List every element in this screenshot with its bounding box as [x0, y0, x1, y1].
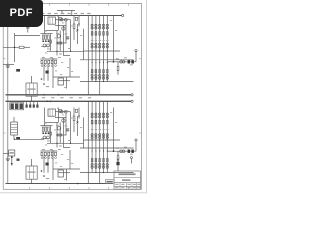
CH2 wire h extra3 [41, 138, 50, 140]
CH2 wire v low4 [67, 150, 71, 181]
resistor R2 CH1 [3, 46, 30, 48]
CH2 wire v mid1 [56, 123, 58, 148]
CH1 wire h extra4 [63, 55, 70, 57]
CH2 wire h3 [47, 142, 84, 144]
CH2 wire h extra4 [63, 147, 70, 149]
CH2 wire v mid3 [62, 118, 64, 148]
part near arrow CH2 [17, 159, 20, 161]
CH2 labels mid [42, 123, 133, 155]
CH1 bank transistors row B [91, 43, 108, 48]
CH2 wire v low1 [43, 156, 45, 173]
CH1 bank bank cross3 [80, 81, 134, 83]
CH2 resistor blobs [42, 132, 49, 134]
CH2 transistor Q6 [43, 136, 50, 139]
CH2 IC U1 box [48, 109, 55, 116]
CH2 wire right bus [113, 108, 115, 152]
wire +V rail CH2 [6, 101, 131, 103]
wire left h CH1 [15, 35, 41, 37]
CH2 wire h5 [58, 172, 70, 174]
CH2 wire top drops [45, 108, 59, 126]
CH2 capacitor C5 [128, 150, 131, 153]
CH2 small part P3 [50, 132, 52, 135]
page edge right [146, 0, 148, 193]
CH1 diode D1 [76, 24, 78, 44]
CH2 wire h2 [56, 134, 67, 136]
CH1 node out [113, 61, 115, 63]
CH2 node out [113, 150, 115, 152]
terminal near title [131, 157, 133, 164]
CH2 bank bank outer wire [84, 118, 89, 149]
wire PSU drops [27, 101, 38, 104]
CH1 wire h extra2 [45, 30, 59, 32]
CH1 bank emitter resistors B [91, 70, 108, 73]
wire relay drop CH1 [31, 76, 33, 101]
CH2 wire v right1 [70, 112, 72, 144]
CH2 small part P2 [75, 109, 77, 112]
CH1 wire h4 [53, 76, 80, 78]
CH1 wire h extra3 [41, 46, 50, 48]
CH1 transistor Q5 [62, 27, 65, 30]
CH1 labels mid [42, 31, 133, 66]
CH1 bank bank cross2 [80, 59, 134, 61]
box B2 CH2 [9, 150, 15, 156]
CH1 wire out line [107, 61, 136, 63]
labels between rails [42, 97, 91, 98]
CH2 bead F2 [65, 110, 68, 113]
CH1 wire h1 [41, 33, 53, 35]
CH1 wire v mid1 [56, 31, 58, 56]
CH2 resistor R6 [73, 108, 75, 133]
CH2 capacitor C6 [131, 150, 134, 153]
CH2 bank bank junctions [92, 139, 108, 173]
CH1 resistor R6 [73, 16, 75, 41]
CH1 resistor R5 [58, 42, 62, 44]
CH1 wire v extra3 [50, 34, 52, 52]
CH2 bank bank cross3 [80, 172, 134, 174]
relay box CH1 [26, 83, 37, 96]
CH2 wire v low2 [47, 156, 49, 173]
wire above rail CH1 [57, 10, 75, 15]
CH1 wire v mid3 [62, 26, 64, 56]
CH1 small part P2 [75, 17, 77, 20]
CH2 diode D1 [76, 116, 78, 136]
CH1 wire v low2 [47, 64, 49, 81]
CH1 bank bank junctions [92, 50, 108, 82]
CH2 wire v extra2 [78, 108, 79, 119]
CH1 wire v right1 [70, 20, 72, 52]
CH2 capacitor C4 [46, 163, 49, 166]
wire -V rail CH2 [6, 183, 113, 185]
node CH1 in [14, 47, 16, 49]
CH2 wire h extra2 [45, 122, 59, 124]
CH1 bead F1 [61, 18, 64, 21]
CH1 wire h2 [56, 42, 67, 44]
CH1 wire top drops [45, 16, 59, 34]
CH1 wire v low1 [43, 64, 45, 81]
wire title feed [116, 159, 119, 172]
CH1 bank transistors row D [91, 74, 108, 79]
CH1 small part P1 [59, 17, 61, 20]
terminal -V CH1 [131, 94, 133, 96]
CH1 resistor blobs [42, 40, 49, 42]
arrow symbol CH2 [11, 156, 13, 166]
CH2 bank emitter resistors B [91, 159, 108, 162]
CH2 bank transistors row D [91, 163, 108, 168]
CH1 wire out v [135, 50, 137, 62]
CH2 resistor R5 [58, 134, 62, 136]
CH1 bank transistors row A [91, 24, 108, 29]
CH1 capacitor C3 [66, 37, 69, 39]
CH2 bank bank cross1 [84, 139, 121, 141]
labels above rail CH1 [41, 13, 91, 14]
CH1 box B3 [58, 78, 63, 85]
CH2 bank bank to rail [88, 173, 99, 184]
CH1 bank bank to rail [88, 82, 99, 95]
revision box [106, 180, 115, 184]
CH1 small marks [41, 78, 49, 87]
relay box CH2 [26, 166, 37, 179]
CH2 wire v extra3 [50, 126, 52, 144]
CH1 parts row [41, 60, 57, 66]
CH2 wire v mid2 [59, 123, 61, 144]
title block [114, 171, 141, 189]
CH2 resistor array [42, 127, 49, 131]
CH2 capacitor C3 [66, 129, 69, 131]
CH1 transistor Q6 [43, 44, 50, 47]
capacitor C2 CH1 [26, 22, 29, 33]
CH1 resistor R9 [117, 62, 119, 75]
CH2 bank emitter resistors A [91, 120, 108, 124]
CH2 box B3 [58, 170, 63, 177]
CH2 bead F1 [61, 110, 64, 113]
CH1 capacitor C5 [128, 60, 131, 63]
CH2 wire out line [107, 150, 136, 152]
CH2 wire h1 [41, 125, 53, 127]
CH1 resistor array [42, 35, 49, 39]
connector cluster PSU [10, 103, 24, 110]
CH2 wire IC right [55, 111, 70, 113]
CH1 bead F2 [65, 18, 68, 21]
CH1 wire v extra1 [65, 21, 67, 43]
diode rects PSU [26, 105, 39, 108]
wire input feed CH2 [14, 135, 44, 140]
CH1 node h3 [56, 51, 71, 52]
CH2 wire v low3 [52, 150, 54, 180]
CH1 parts row top wire [41, 58, 58, 60]
frame zone ticks left-right [3, 59, 141, 133]
CH2 small marks [41, 170, 49, 179]
wire -V rail CH1 [6, 94, 131, 96]
junction -V CH2 [77, 183, 79, 185]
CH1 capacitor C4 [46, 71, 49, 74]
CH1 bank bank labels [91, 39, 109, 42]
CH2 bank transistors row B [91, 134, 108, 139]
ground symbol CH2 [6, 156, 10, 161]
CH2 wire v extra1 [65, 113, 67, 135]
CH1 labels mid2 [45, 16, 117, 88]
CH1 transistor Q4 [57, 35, 60, 38]
CH1 wire h5 [58, 80, 70, 82]
CH2 labels mid2 [45, 108, 117, 180]
CH1 bank bank marks C [92, 62, 108, 63]
CH2 bank bank verticals [88, 101, 107, 172]
CH2 bank bank cross2 [80, 147, 134, 149]
terminal +V CH2 [131, 100, 133, 102]
frame zone ticks top-bottom [30, 3, 129, 189]
wire relay drop CH2 [31, 159, 33, 184]
CH1 bank bank cross1 [84, 50, 121, 52]
capacitor C7 CH1 [16, 69, 20, 72]
CH1 bank emitter resistors A [91, 32, 108, 36]
CH1 bank bank outer wire [84, 29, 89, 60]
CH1 capacitor C6 [131, 60, 134, 63]
CH2 inductor L1 [120, 150, 125, 153]
CH1 wire v mid2 [59, 31, 61, 52]
CH2 bank transistors row A [91, 113, 108, 118]
CH2 transistor Q4 [57, 127, 60, 130]
CH1 wire IC right [55, 19, 70, 21]
CH1 wire v low3 [52, 58, 54, 88]
CH1 wire h extra1 [55, 25, 66, 27]
wire left link CH1 [3, 64, 14, 66]
CH2 transistor Q5 [62, 119, 65, 122]
capacitor C7 CH2 [16, 137, 20, 140]
CH1 inductor L1 [120, 61, 125, 64]
CH2 resistor R9 [117, 151, 119, 164]
CH1 wire v extra2 [78, 16, 79, 27]
wire +V rail CH1 [6, 15, 122, 17]
CH2 wire h4 [53, 168, 80, 170]
CH2 parts row top wire [41, 150, 58, 152]
CH1 wire right bus [113, 16, 115, 62]
CH2 small part P1 [59, 109, 61, 112]
CH2 wire h extra1 [55, 117, 66, 119]
wire left v2 CH1 [14, 33, 16, 62]
PDF badge [0, 0, 43, 27]
CH2 wire out v [135, 139, 137, 151]
CH1 wire v low4 [67, 58, 71, 89]
CH1 IC U1 box [48, 17, 55, 24]
CH2 bank bank marks C [92, 150, 108, 151]
terminal +V CH1 [122, 14, 124, 16]
page edge bottom [0, 192, 147, 194]
connector ladder CH2 [11, 117, 18, 135]
CH1 bank bank verticals [88, 16, 107, 82]
CH1 wire h3 [47, 50, 84, 52]
wire left link CH2 [3, 153, 8, 155]
CH2 bank bank labels [91, 128, 109, 131]
CH1 small part P3 [50, 40, 52, 43]
drawing frame border [3, 3, 141, 189]
CH2 node h3 [56, 143, 71, 144]
CH2 parts row [41, 152, 57, 158]
ground symbol CH1 [6, 63, 10, 68]
wire input bus [7, 16, 9, 184]
